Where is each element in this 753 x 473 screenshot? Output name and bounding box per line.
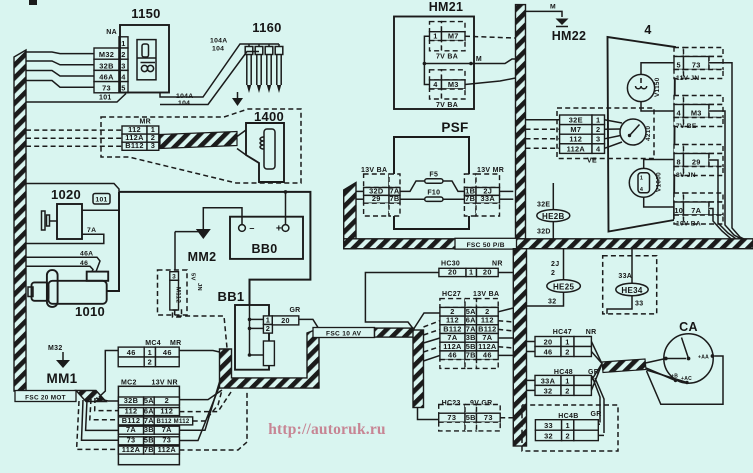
svg-text:FSC 10 AV: FSC 10 AV: [326, 330, 362, 337]
svg-text:104: 104: [178, 100, 190, 107]
svg-text:2: 2: [165, 396, 169, 405]
wire 29 to harness: [709, 160, 736, 239]
svg-text:M7: M7: [570, 125, 581, 134]
dashed stub below M112: [173, 310, 182, 317]
svg-text:MR: MR: [170, 340, 182, 347]
svg-text:CA: CA: [679, 320, 698, 334]
svg-text:112A: 112A: [478, 342, 497, 351]
svg-text:M32: M32: [99, 50, 114, 59]
svg-text:2: 2: [551, 270, 555, 277]
svg-text:73: 73: [484, 413, 493, 422]
svg-text:5B: 5B: [466, 413, 476, 422]
svg-text:33A: 33A: [618, 273, 632, 280]
svg-text:2: 2: [121, 50, 125, 59]
connector M112: [158, 270, 188, 315]
svg-text:8V JN: 8V JN: [676, 172, 696, 179]
sensor body 1400: [246, 123, 284, 182]
svg-text:32E: 32E: [569, 116, 583, 125]
harness bar center-right vertical: [513, 249, 526, 446]
svg-text:FSC 50 P/B: FSC 50 P/B: [467, 242, 505, 249]
cluster connector pin 10 / 7A: [674, 193, 684, 202]
svg-text:101: 101: [95, 197, 107, 204]
svg-text:13V MR: 13V MR: [477, 167, 504, 174]
svg-text:20: 20: [483, 268, 492, 277]
svg-text:11V JN: 11V JN: [676, 75, 699, 82]
svg-text:73: 73: [447, 413, 456, 422]
svg-text:104A: 104A: [210, 38, 227, 45]
wire 20 GR to FSC 10 AV: [299, 319, 319, 328]
svg-text:46: 46: [80, 260, 88, 267]
svg-text:3B: 3B: [144, 425, 154, 434]
label FSC 20 MOT: [15, 391, 76, 402]
svg-text:6A: 6A: [466, 316, 476, 325]
ignition module 1150: [120, 25, 169, 93]
svg-text:1: 1: [565, 337, 569, 346]
svg-text:M112: M112: [175, 287, 182, 304]
svg-text:13V BA: 13V BA: [361, 167, 387, 174]
dashed wire M7 to bar: [465, 36, 516, 38]
svg-text:HE34: HE34: [621, 286, 642, 295]
svg-text:104: 104: [212, 46, 224, 53]
wire M3 to harness: [709, 111, 741, 239]
wire 32E: [552, 183, 554, 210]
wire 104 diagonal: [160, 52, 259, 105]
svg-text:MM1: MM1: [47, 371, 78, 386]
wire 46A: [26, 257, 100, 271]
svg-text:13V NR: 13V NR: [152, 380, 178, 387]
svg-text:HM21: HM21: [429, 0, 464, 14]
wire V1150 to pin 4: [641, 102, 674, 111]
gauge V1000: [629, 168, 658, 197]
svg-text:4: 4: [677, 108, 682, 117]
dashed wires bar to MR: [26, 129, 122, 131]
wire harness to HC23: [418, 408, 439, 420]
svg-text:BB1: BB1: [218, 289, 245, 304]
wire MC4 to harness: [99, 351, 118, 398]
svg-text:73: 73: [127, 436, 136, 445]
svg-text:112: 112: [125, 407, 138, 416]
wire HC30 left to harness: [365, 273, 439, 329]
svg-text:M: M: [476, 56, 482, 63]
wires HC27 right stubs: [498, 308, 513, 312]
svg-text:2: 2: [266, 324, 270, 333]
svg-text:7V BA: 7V BA: [436, 54, 458, 61]
svg-text:46A: 46A: [80, 251, 93, 258]
svg-text:33: 33: [635, 301, 643, 308]
svg-text:46: 46: [163, 348, 172, 357]
BB1 fuse 20 GR: [272, 316, 299, 325]
svg-text:20: 20: [448, 268, 457, 277]
svg-text:M3: M3: [448, 80, 459, 89]
svg-text:2: 2: [148, 358, 152, 367]
svg-text:46: 46: [127, 348, 136, 357]
wire V1150 to pin 5: [641, 63, 674, 75]
dashed box around VE connector: [557, 108, 654, 159]
svg-text:HC30: HC30: [441, 261, 460, 268]
svg-text:B112: B112: [443, 324, 461, 333]
label 101 boxed: [93, 194, 110, 205]
svg-text:2: 2: [565, 347, 569, 356]
svg-text:3: 3: [596, 135, 600, 144]
BB1 connector pins 1,2: [263, 316, 272, 325]
svg-text:1400: 1400: [254, 109, 284, 124]
svg-text:–: –: [249, 223, 254, 233]
wire 101 from 1020: [82, 209, 119, 211]
svg-text:73: 73: [102, 84, 111, 93]
wires HC48 left stubs: [527, 379, 536, 381]
svg-text:7A: 7A: [162, 425, 172, 434]
wires PSF left to small bar: [356, 190, 364, 192]
svg-text:NA: NA: [106, 29, 117, 36]
wire M to HM22 ground: [526, 11, 563, 17]
svg-text:2J: 2J: [551, 261, 559, 268]
main 101 bus wire: [119, 192, 310, 305]
svg-text:1: 1: [121, 39, 125, 48]
svg-text:10V BA: 10V BA: [676, 221, 701, 228]
svg-text:46: 46: [448, 351, 457, 360]
battery BB0: [230, 217, 303, 259]
svg-text:101: 101: [99, 95, 112, 102]
wire battery minus to MM2: [203, 208, 242, 225]
svg-text:NR: NR: [492, 261, 503, 268]
svg-text:5B: 5B: [144, 436, 154, 445]
svg-text:112A: 112A: [567, 144, 586, 153]
svg-text:2: 2: [596, 125, 600, 134]
wire to NA pin 3: [26, 61, 94, 65]
svg-text:F10: F10: [427, 190, 440, 197]
wire 33 from HE34: [607, 296, 632, 314]
svg-text:V1000: V1000: [656, 172, 663, 192]
dashed wire M112 to harness: [175, 310, 227, 348]
svg-text:4: 4: [121, 73, 126, 82]
svg-text:13V BA: 13V BA: [473, 291, 499, 298]
connector VE of cluster: [560, 115, 592, 125]
svg-text:M3: M3: [691, 108, 702, 117]
HM21 connector 1/M7: [430, 22, 442, 32]
wire 2J/2 from bar to HE25: [563, 249, 565, 280]
svg-text:112A: 112A: [443, 342, 462, 351]
svg-text:112: 112: [446, 316, 459, 325]
wire HC30 right stub: [498, 272, 513, 274]
svg-text:HE25: HE25: [553, 282, 574, 291]
svg-text:46A: 46A: [99, 73, 114, 82]
dashed box lower HC48: [522, 405, 618, 451]
svg-text:112A: 112A: [158, 445, 177, 454]
wires HC47 to cable: [591, 342, 601, 364]
svg-text:M32: M32: [48, 345, 63, 352]
svg-text:NR: NR: [586, 329, 597, 336]
svg-text:2: 2: [450, 307, 454, 316]
wires VE pins to 4210: [605, 120, 623, 123]
svg-text:HE2B: HE2B: [542, 212, 565, 221]
wire 32 from HE25: [527, 292, 564, 306]
ground MM2: [196, 229, 211, 239]
HM21 internal wire M: [424, 36, 429, 84]
wires lower HC48 rows: [598, 423, 600, 425]
svg-text:B112: B112: [478, 324, 496, 333]
svg-text:7A: 7A: [144, 416, 154, 425]
svg-text:MM2: MM2: [188, 250, 217, 264]
svg-text:7V BA: 7V BA: [436, 102, 458, 109]
svg-text:HM22: HM22: [552, 29, 587, 43]
cropped mark top left: [29, 0, 37, 5]
cable bundle to ignition switch: [602, 359, 646, 373]
connector NA pin column 1-5: [119, 37, 128, 48]
svg-text:7V BE: 7V BE: [676, 123, 697, 130]
svg-text:1: 1: [469, 268, 473, 277]
svg-text:33A: 33A: [541, 376, 556, 385]
svg-text:GR: GR: [591, 411, 602, 418]
wire bar to junction (y=183.5): [26, 184, 119, 192]
wires to lower HC48: [592, 376, 600, 423]
svg-text:7B: 7B: [389, 194, 399, 203]
wires PSF right to center bar: [500, 190, 514, 192]
wires harness to HC27 left: [413, 313, 440, 330]
svg-text:1: 1: [596, 116, 600, 125]
svg-text:HC27: HC27: [442, 291, 461, 298]
svg-text:MC4: MC4: [145, 340, 161, 347]
wire 104A diagonal: [160, 44, 279, 97]
svg-text:73: 73: [162, 436, 171, 445]
svg-text:3: 3: [121, 61, 125, 70]
label FSC 10 AV: [313, 328, 375, 338]
wire 33A to HE34: [631, 249, 633, 284]
svg-text:46: 46: [544, 347, 553, 356]
svg-text:4: 4: [433, 80, 438, 89]
harness bar FSC 10 AV elbow: [220, 329, 320, 389]
harness bar left of PSF: [344, 183, 356, 249]
svg-text:1010: 1010: [75, 304, 105, 319]
svg-text:B112: B112: [125, 141, 143, 150]
svg-text:2: 2: [565, 386, 569, 395]
svg-text:M7: M7: [448, 32, 459, 41]
svg-text:32E: 32E: [537, 202, 550, 209]
svg-text:7A: 7A: [482, 333, 492, 342]
shielded cable to 1400 sensor: [160, 132, 237, 149]
svg-text:1: 1: [565, 376, 569, 385]
svg-text:4210: 4210: [645, 125, 652, 141]
svg-text:32D: 32D: [537, 229, 551, 236]
svg-text:3B: 3B: [466, 333, 476, 342]
svg-text:JN: JN: [196, 283, 202, 291]
clock 4210: [620, 119, 646, 145]
wire V1000 to pin 10: [644, 197, 674, 207]
harness bar FSC 50 P/B horizontal: [344, 239, 753, 249]
svg-text:BB0: BB0: [252, 242, 278, 256]
svg-text:10: 10: [674, 206, 683, 215]
wire HC23 right dashed stub: [500, 417, 513, 419]
svg-text:M: M: [550, 4, 556, 11]
wire 101 (bar to 1150): [26, 94, 126, 103]
svg-text:112: 112: [481, 316, 494, 325]
wire 101 down to starter: [107, 192, 119, 291]
svg-text:3: 3: [151, 141, 155, 150]
svg-text:B112: B112: [122, 416, 140, 425]
svg-text:7B: 7B: [144, 445, 154, 454]
svg-text:112: 112: [569, 135, 582, 144]
svg-text:7A: 7A: [126, 425, 136, 434]
svg-text:6A: 6A: [144, 407, 154, 416]
gauge V1150: [627, 74, 654, 101]
svg-text:1: 1: [640, 176, 643, 182]
wire 7A to harness: [709, 209, 731, 239]
wire to NA pin 2: [26, 52, 94, 54]
cluster connector pin 8 / 29: [674, 145, 684, 154]
svg-text:HC47: HC47: [553, 329, 572, 336]
cluster connector pin 4 / M3: [674, 96, 684, 105]
connector M112 extension cell on MC2 row B112: [154, 417, 193, 425]
wires MC2 right to harness FSC 10 AV: [179, 390, 222, 400]
harness bar FSC 10 AV right section: [375, 328, 415, 337]
ground MM1: [62, 352, 64, 360]
label FSC 50 P/B: [455, 238, 517, 249]
svg-text:2: 2: [565, 432, 569, 441]
svg-text:4: 4: [644, 23, 651, 37]
svg-text:32B: 32B: [124, 396, 138, 405]
instrument cluster 4 outline: [608, 37, 676, 232]
wires HC48 to cable: [591, 364, 601, 381]
svg-text:VE: VE: [587, 158, 597, 165]
HM21 connector 4/M3: [430, 70, 442, 80]
wire MC4 right 46: [179, 351, 219, 353]
svg-text:5A: 5A: [466, 307, 476, 316]
cluster connector pin 5 / 73: [674, 48, 684, 57]
dashed wire B112-M112 to harness: [193, 390, 222, 421]
svg-text:32B: 32B: [99, 61, 113, 70]
svg-text:112: 112: [160, 407, 173, 416]
svg-text:V1150: V1150: [654, 77, 661, 97]
svg-text:29: 29: [692, 157, 701, 166]
svg-text:3: 3: [172, 274, 176, 281]
wire M to bar: [424, 59, 515, 64]
wire 73 to harness: [709, 63, 746, 240]
wire battery plus: [285, 192, 287, 225]
wire M3 to bar: [465, 78, 516, 85]
svg-text:112A: 112A: [122, 445, 141, 454]
inline connector HE25: [547, 280, 581, 293]
starter motor 1010: [32, 282, 49, 300]
connector NA labels: [94, 48, 119, 59]
svg-text:1160: 1160: [252, 20, 281, 35]
wire loop to +AA: [647, 356, 724, 404]
inline connector HE2B: [537, 210, 570, 222]
svg-text:+AA: +AA: [698, 355, 709, 361]
harness bar vertical near HC27: [413, 330, 424, 408]
svg-text:2: 2: [485, 307, 489, 316]
wire to NA pin 5: [26, 81, 94, 88]
svg-text:5B: 5B: [466, 342, 476, 351]
fan wires FSC20 bar end to MC2: [96, 398, 118, 401]
wire MM2 to M112: [175, 231, 203, 233]
svg-text:+: +: [276, 224, 282, 235]
harness bar FSC 20 MOT (left vertical): [14, 50, 26, 391]
svg-text:http://autoruk.ru: http://autoruk.ru: [268, 421, 386, 438]
inline connector HE34: [616, 283, 648, 295]
svg-text:GR: GR: [289, 307, 300, 314]
svg-text:1020: 1020: [51, 187, 81, 202]
svg-text:20: 20: [281, 316, 290, 325]
svg-text:4: 4: [596, 144, 601, 153]
wires bar to VE connector: [526, 119, 560, 121]
svg-text:F5: F5: [429, 172, 438, 179]
svg-text:1: 1: [433, 32, 437, 41]
wires cable to CA terminals: [646, 359, 666, 364]
svg-text:5V: 5V: [190, 273, 196, 281]
wires HC47 left stubs: [527, 341, 536, 343]
svg-text:7A: 7A: [691, 206, 701, 215]
svg-text:5: 5: [677, 60, 681, 69]
svg-text:MC2: MC2: [121, 380, 137, 387]
wire 32D: [552, 222, 554, 239]
svg-text:29: 29: [372, 194, 381, 203]
svg-text:73: 73: [692, 60, 701, 69]
dashed box around HE34: [603, 256, 657, 314]
svg-text:1: 1: [148, 348, 152, 357]
svg-text:5A: 5A: [144, 396, 154, 405]
svg-text:PSF: PSF: [441, 120, 468, 135]
svg-text:33: 33: [544, 421, 553, 430]
svg-text:32: 32: [544, 386, 553, 395]
wire V1000 to pin 8: [644, 160, 674, 169]
svg-text:7A: 7A: [87, 227, 96, 234]
svg-text:MR: MR: [140, 119, 152, 126]
wire 7A return: [26, 234, 104, 243]
wire to NA pin 4: [26, 71, 94, 77]
wire 46: [26, 266, 93, 271]
svg-text:B112 M112: B112 M112: [157, 419, 190, 425]
svg-text:HC4B: HC4B: [558, 413, 578, 420]
svg-text:1150: 1150: [131, 6, 160, 21]
dashed enclosure 1400: [101, 109, 301, 183]
svg-text:7B: 7B: [465, 194, 475, 203]
svg-text:7B: 7B: [466, 351, 476, 360]
svg-text:5: 5: [121, 84, 125, 93]
svg-text:7A: 7A: [447, 333, 457, 342]
ground arrow below 1160: [237, 92, 239, 98]
svg-text:FSC 20 MOT: FSC 20 MOT: [25, 394, 66, 401]
svg-text:33A: 33A: [481, 194, 496, 203]
svg-text:20: 20: [544, 337, 553, 346]
harness bar FSC 20 MOT elbow end: [76, 391, 106, 402]
svg-text:7A: 7A: [466, 324, 476, 333]
harness bar top center vertical: [516, 5, 526, 239]
ground HM22: [556, 19, 569, 26]
svg-text:1: 1: [565, 421, 569, 430]
coil symbol in 1150: [141, 65, 147, 71]
svg-text:8: 8: [677, 157, 681, 166]
svg-text:32: 32: [548, 299, 556, 306]
svg-text:32: 32: [544, 432, 553, 441]
svg-text:46: 46: [483, 351, 492, 360]
